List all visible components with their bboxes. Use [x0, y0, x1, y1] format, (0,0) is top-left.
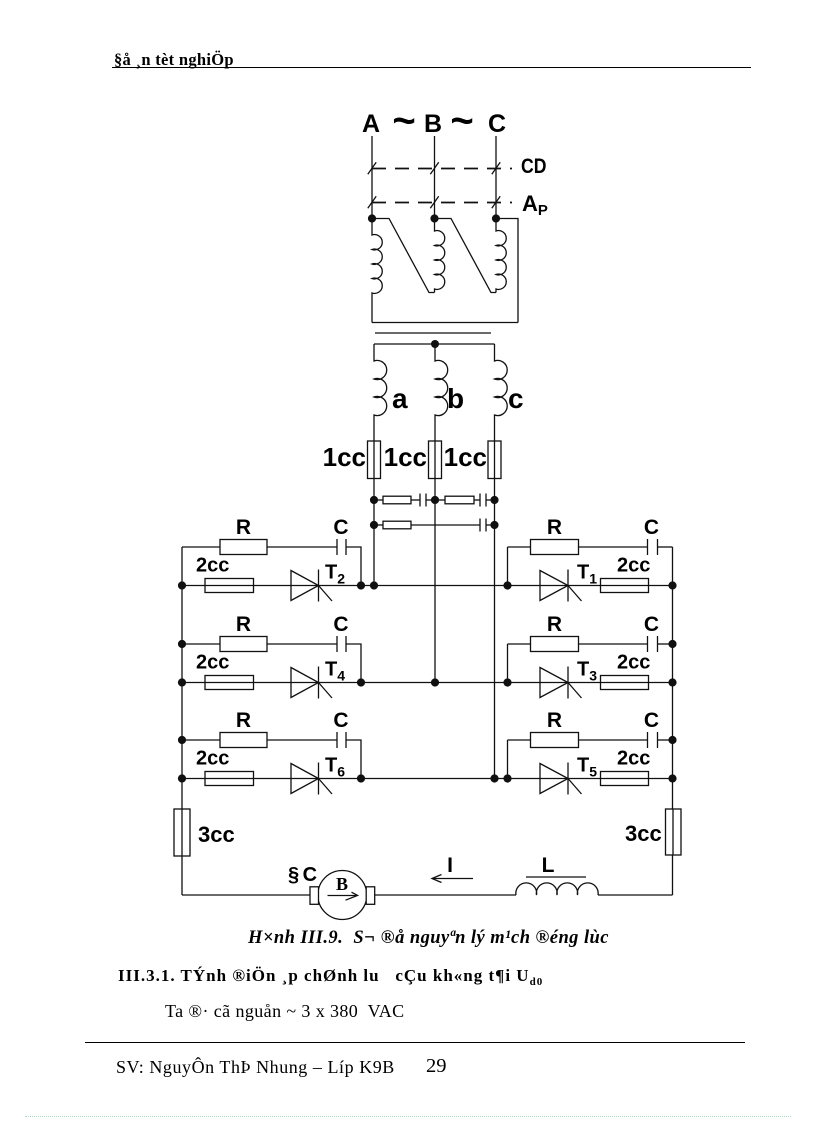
- snubber T5: capacitor C: [647, 732, 649, 748]
- paragraph: [165, 1001, 405, 1022]
- svg-text:R: R: [236, 516, 251, 539]
- motor DC (circle): [318, 871, 367, 920]
- motor brush right: [366, 887, 375, 905]
- svg-text:3cc: 3cc: [625, 821, 662, 846]
- svg-text:2cc: 2cc: [617, 555, 650, 577]
- snubber row1: resistor b-c: [435, 499, 445, 501]
- junction dot bus-snubber T6: [178, 736, 186, 744]
- junction dot phase tap row: [490, 774, 498, 782]
- transformer core line: [375, 332, 491, 334]
- snubber T6: wire from bus: [182, 739, 220, 741]
- fuse 1cc: [488, 441, 501, 479]
- svg-text:2cc: 2cc: [617, 652, 650, 674]
- snubber T3: wire to R: [508, 643, 531, 645]
- junction dot snubberC-row T2: [357, 581, 365, 589]
- thyristor T4: [291, 668, 319, 698]
- svg-text:~: ~: [392, 99, 415, 143]
- snubber T2: capacitor C: [336, 539, 338, 555]
- svg-text:§C: §C: [288, 864, 321, 886]
- snubber T3: wire R to C: [579, 643, 648, 645]
- wire delta link B to C-coil bottom: [435, 219, 497, 293]
- wire right bus: [672, 547, 674, 895]
- breaker AP contact tick: [368, 196, 376, 208]
- transformer primary winding C (coil): [496, 219, 506, 293]
- thyristor T1: [540, 571, 568, 601]
- snubber T6: wire R to C: [267, 739, 337, 741]
- svg-text:I: I: [447, 854, 453, 877]
- svg-text:2cc: 2cc: [196, 748, 229, 770]
- snubber row1: capacitor b-c: [474, 499, 480, 501]
- footer rule: [85, 1042, 745, 1043]
- wire left bus: [181, 547, 183, 895]
- junction dot anode-snubber T3: [503, 678, 511, 686]
- junction dot c row1: [490, 496, 498, 504]
- svg-text:2cc: 2cc: [196, 652, 229, 674]
- svg-text:CD: CD: [521, 155, 547, 178]
- snubber T3: capacitor C: [647, 636, 649, 652]
- breaker CD dashed line: [372, 168, 512, 170]
- junction dot phase: [368, 214, 376, 222]
- junction dot bus-row right T5: [668, 774, 676, 782]
- breaker CD contact tick: [492, 162, 500, 174]
- snubber T4: wire C down to cathode: [347, 644, 362, 683]
- breaker AP contact tick: [492, 196, 500, 208]
- snubber T4: wire R to C: [267, 643, 337, 645]
- junction dot phase tap row: [431, 678, 439, 686]
- snubber T5: resistor R: [531, 733, 579, 748]
- svg-text:C: C: [333, 709, 348, 732]
- junction dot bus-row right T3: [668, 678, 676, 686]
- snubber T4: wire from bus: [182, 643, 220, 645]
- svg-text:T5: T5: [577, 755, 597, 780]
- wire row T2/T1 main: [182, 585, 673, 587]
- fuse 1cc: [429, 441, 442, 479]
- svg-text:B: B: [424, 110, 442, 138]
- svg-text:C: C: [644, 709, 659, 732]
- caption: [248, 928, 609, 949]
- snubber T1: wire anode up: [507, 547, 509, 586]
- snubber T1: wire C to bus: [658, 546, 673, 548]
- wire phase drop from top label: [434, 136, 436, 219]
- svg-text:T4: T4: [325, 659, 345, 684]
- fuse 2cc (T5 branch): [601, 772, 649, 786]
- header rule: [112, 67, 751, 68]
- junction dot bus-snubber T3: [668, 640, 676, 648]
- snubber row2: capacitor a-c: [411, 524, 480, 526]
- fuse 3cc right: [666, 809, 682, 855]
- fuse 3cc left: [174, 809, 190, 856]
- junction dot bus-row T4: [178, 678, 186, 686]
- svg-text:T6: T6: [325, 755, 345, 780]
- motor brush left: [310, 887, 319, 905]
- svg-text:~: ~: [450, 99, 473, 143]
- svg-text:R: R: [236, 709, 251, 732]
- junction dot bus-snubber T4: [178, 640, 186, 648]
- junction dot bus-row right T1: [668, 581, 676, 589]
- svg-text:C: C: [333, 516, 348, 539]
- snubber T4: resistor R: [220, 637, 267, 652]
- junction dot anode-snubber T1: [503, 581, 511, 589]
- junction dot snubberC-row T4: [357, 678, 365, 686]
- svg-text:L: L: [542, 854, 555, 877]
- wire bottom rail right: [598, 894, 673, 896]
- section heading: [118, 966, 543, 988]
- footer text: [116, 1057, 395, 1078]
- svg-text:3cc: 3cc: [198, 822, 235, 847]
- faint dotted separator at page bottom: [25, 1116, 791, 1117]
- svg-text:C: C: [644, 613, 659, 636]
- wire secondary star rail: [374, 343, 495, 345]
- snubber T6: wire C down to cathode: [347, 740, 362, 779]
- transformer secondary winding a (coil): [374, 344, 387, 586]
- svg-text:T1: T1: [577, 562, 597, 587]
- svg-text:A: A: [362, 110, 380, 138]
- wire phase drop from top label: [371, 136, 373, 219]
- svg-text:2cc: 2cc: [617, 748, 650, 770]
- junction dot a row1: [370, 496, 378, 504]
- snubber T1: wire R to C: [579, 546, 648, 548]
- svg-text:R: R: [547, 516, 562, 539]
- wire primary bottom rail: [372, 322, 518, 324]
- thyristor T3: [540, 668, 568, 698]
- junction dot anode-snubber T5: [503, 774, 511, 782]
- svg-text:2cc: 2cc: [196, 555, 229, 577]
- transformer primary winding A (coil): [372, 219, 382, 323]
- junction dot bus-row T2: [178, 581, 186, 589]
- fuse 2cc (T1 branch): [601, 579, 649, 593]
- junction dot star point: [431, 340, 439, 348]
- fuse 2cc (T4 branch): [205, 676, 254, 690]
- svg-text:B: B: [336, 874, 348, 894]
- snubber T5: wire anode up: [507, 740, 509, 779]
- fuse 2cc (T6 branch): [205, 772, 254, 786]
- thyristor T6: [291, 764, 319, 794]
- motor rotation arrow: [328, 895, 357, 897]
- breaker AP contact tick: [430, 196, 438, 208]
- fuse 1cc: [368, 441, 381, 479]
- snubber T1: wire to R: [508, 546, 531, 548]
- label L underline: [526, 876, 586, 878]
- transformer secondary winding b (coil): [435, 344, 448, 683]
- svg-text:1cc: 1cc: [384, 442, 427, 472]
- snubber T2: wire C down to cathode: [347, 547, 362, 586]
- snubber T5: wire C to bus: [658, 739, 673, 741]
- snubber T3: wire C to bus: [658, 643, 673, 645]
- snubber row1: capacitor a-b: [411, 499, 420, 501]
- wire delta link A to B-coil bottom: [372, 219, 435, 293]
- fuse 2cc (T3 branch): [601, 676, 649, 690]
- junction dot bus-snubber T5: [668, 736, 676, 744]
- snubber T6: resistor R: [220, 733, 267, 748]
- snubber row2: resistor a-c: [374, 524, 383, 526]
- wire delta link C to bottom rail: [496, 219, 518, 323]
- svg-text:R: R: [547, 709, 562, 732]
- svg-text:T2: T2: [325, 562, 345, 587]
- junction dot c row2: [490, 521, 498, 529]
- breaker AP dashed line: [372, 202, 512, 204]
- wire row T4/T3 main: [182, 682, 673, 684]
- breaker CD contact tick: [368, 162, 376, 174]
- current arrow I: [432, 878, 473, 880]
- wire phase drop from top label: [495, 136, 497, 219]
- snubber T1: capacitor C: [647, 539, 649, 555]
- junction dot phase: [430, 214, 438, 222]
- fuse 2cc (T2 branch): [205, 579, 254, 593]
- snubber T3: resistor R: [531, 637, 579, 652]
- header text: [114, 50, 234, 70]
- page number: [426, 1055, 447, 1078]
- snubber row1: resistor a-b: [374, 499, 383, 501]
- thyristor T2: [291, 571, 319, 601]
- svg-text:b: b: [447, 383, 464, 414]
- wire bottom rail left: [182, 894, 516, 896]
- junction dot phase tap row: [370, 581, 378, 589]
- snubber T6: capacitor C: [336, 732, 338, 748]
- junction dot b row1: [431, 496, 439, 504]
- inductor L: [516, 883, 598, 895]
- snubber T5: wire R to C: [579, 739, 648, 741]
- svg-text:AP: AP: [522, 191, 548, 219]
- snubber T5: wire to R: [508, 739, 531, 741]
- snubber T1: resistor R: [531, 540, 579, 555]
- snubber T2: resistor R: [220, 540, 267, 555]
- snubber T3: wire anode up: [507, 644, 509, 683]
- svg-text:1cc: 1cc: [323, 442, 366, 472]
- junction dot bus-row T6: [178, 774, 186, 782]
- snubber T2: wire R to C: [267, 546, 337, 548]
- snubber T4: capacitor C: [336, 636, 338, 652]
- junction dot snubberC-row T6: [357, 774, 365, 782]
- junction dot phase: [492, 214, 500, 222]
- svg-text:R: R: [547, 613, 562, 636]
- transformer primary winding B (coil): [435, 219, 445, 293]
- svg-text:1cc: 1cc: [444, 442, 487, 472]
- thyristor T5: [540, 764, 568, 794]
- svg-text:C: C: [488, 110, 506, 138]
- svg-text:C: C: [333, 613, 348, 636]
- junction dot a row2: [370, 521, 378, 529]
- breaker CD contact tick: [430, 162, 438, 174]
- svg-text:C: C: [644, 516, 659, 539]
- snubber T2: wire from bus: [182, 546, 220, 548]
- svg-text:a: a: [392, 383, 408, 414]
- transformer secondary winding c (coil): [495, 344, 508, 779]
- wire row T6/T5 main: [182, 778, 673, 780]
- svg-text:c: c: [508, 383, 524, 414]
- svg-text:R: R: [236, 613, 251, 636]
- svg-text:T3: T3: [577, 659, 597, 684]
